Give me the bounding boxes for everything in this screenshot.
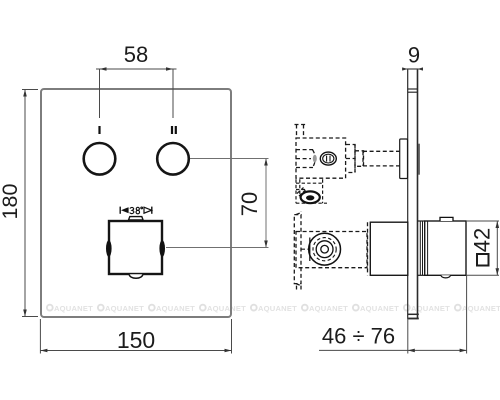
svg-text:180: 180 [0, 184, 22, 220]
outlet bracket under cartridge [296, 179, 327, 203]
inlet pipe top [296, 125, 298, 139]
dimension 150 [40, 319, 231, 354]
knob II mark [171, 126, 173, 134]
mounting flange bar [294, 215, 301, 284]
svg-text:AQUANET: AQUANET [207, 304, 246, 313]
svg-text:AQUANET: AQUANET [309, 304, 348, 313]
handle escutcheon lines [419, 221, 421, 275]
left check valve fitting [296, 149, 313, 151]
knob II circle [157, 143, 189, 175]
square handle side view [425, 221, 466, 275]
fitting cap shadow [313, 155, 317, 163]
dimension 70 [166, 159, 269, 248]
svg-text:AQUANET: AQUANET [105, 304, 144, 313]
svg-text:9: 9 [408, 43, 420, 68]
cartridge face oval [320, 152, 336, 165]
svg-text:AQUANET: AQUANET [258, 304, 297, 313]
dimension 9 [402, 68, 423, 70]
valve body through wall [370, 222, 408, 275]
svg-text:AQUANET: AQUANET [156, 304, 195, 313]
dimension 58 [96, 69, 177, 118]
knob top tab [129, 217, 144, 220]
svg-text:42: 42 [470, 228, 495, 252]
knob right lug [159, 240, 165, 257]
watermark row [47, 304, 500, 313]
handle bottom lug [441, 275, 450, 278]
38 degree label [120, 207, 152, 214]
svg-text:58: 58 [124, 42, 148, 67]
stem flange at plate [400, 139, 408, 179]
volume valve hidden body [294, 211, 371, 289]
thermostat cartridge hidden body [295, 125, 400, 179]
handle top tab [440, 217, 453, 221]
cartridge nut [346, 145, 355, 173]
svg-text:150: 150 [117, 327, 155, 353]
svg-text:AQUANET: AQUANET [54, 304, 93, 313]
svg-text:70: 70 [237, 192, 262, 216]
svg-text:AQUANET: AQUANET [462, 304, 500, 313]
front plate [41, 89, 231, 317]
valve cap circles [309, 233, 341, 265]
knob bottom lug [129, 274, 143, 278]
rear hatch strip [367, 222, 369, 275]
side view wall plate [408, 69, 419, 319]
knob I mark [98, 126, 100, 134]
knob I circle [84, 143, 116, 175]
42 square symbol [477, 254, 489, 266]
spindle [363, 150, 400, 152]
knob left lug [106, 240, 112, 257]
outlet port dark [306, 195, 314, 200]
dimension 42 [466, 221, 499, 275]
temperature knob square [109, 221, 162, 274]
dimension 46-76 [319, 275, 467, 353]
dimension 180 [22, 90, 38, 317]
round knob edge-on echo [418, 144, 420, 175]
svg-text:46 ÷ 76: 46 ÷ 76 [322, 324, 395, 349]
svg-text:AQUANET: AQUANET [360, 304, 399, 313]
valve center dash [301, 248, 309, 250]
outlet boss [301, 191, 320, 203]
